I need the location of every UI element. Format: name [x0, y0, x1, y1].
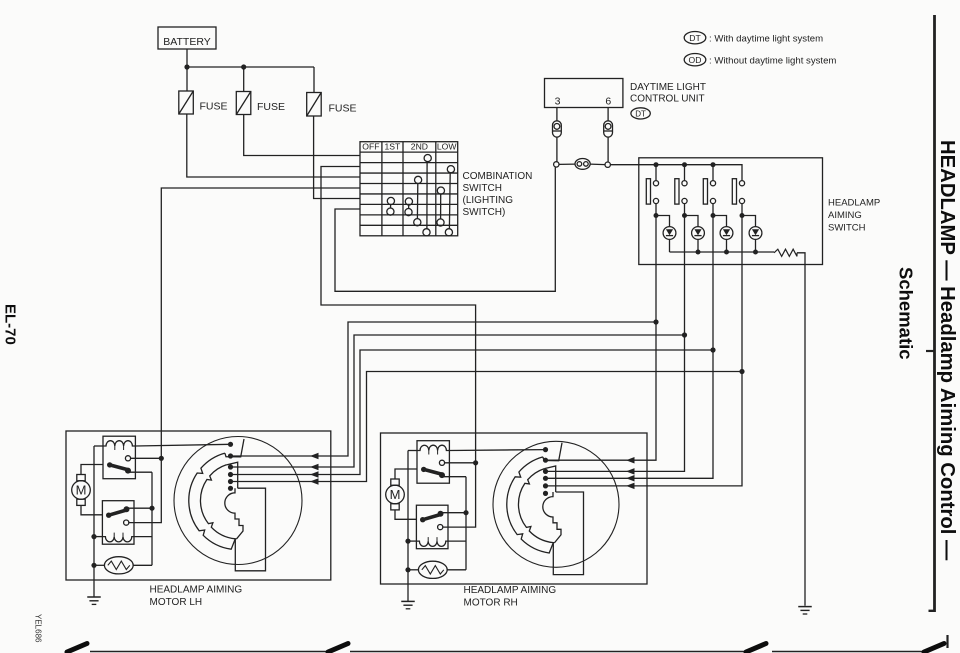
relay K2 armature (LH)	[106, 513, 111, 518]
aiming switch resistor bar 4	[732, 179, 736, 204]
node top bus 1	[654, 162, 659, 167]
wire motor bottom to relay2 (LH)	[81, 505, 102, 514]
thermistor TH (RH)	[418, 561, 447, 578]
wire resistor to ground run	[797, 253, 805, 606]
wire K1 coil left (LH)	[94, 445, 103, 447]
node K2 coil left (RH)	[405, 539, 410, 544]
switch contact C	[415, 176, 422, 183]
svg-text:: With daytime light system: : With daytime light system	[709, 33, 823, 44]
svg-text:MOTOR RH: MOTOR RH	[464, 598, 518, 609]
wire fuse3 to lighting switch	[314, 116, 360, 199]
wire bus drop 2	[684, 165, 686, 181]
svg-text:EL-70: EL-70	[2, 304, 19, 345]
node K1 feed (LH)	[159, 456, 164, 461]
wire K1 circle to feed (LH)	[131, 457, 162, 459]
node bus tap 2	[682, 332, 687, 337]
sensor contact dot 6 (RH)	[543, 491, 548, 496]
wire to K2 coil left (LH)	[94, 536, 102, 538]
svg-text:M: M	[76, 483, 87, 498]
aiming switch contact top 4	[739, 181, 744, 186]
svg-text:OFF: OFF	[362, 141, 379, 151]
wire motor bottom to relay2 (RH)	[395, 510, 416, 519]
relay K1 box (RH)	[417, 441, 449, 484]
sensor contact dot 1 (RH)	[543, 447, 548, 452]
diode D1	[663, 227, 676, 240]
wire to thermistor (RH)	[408, 569, 418, 571]
wire motor top to relay1 (LH)	[81, 465, 103, 475]
connector bulb under pin 6	[604, 121, 613, 137]
svg-text:1ST: 1ST	[385, 141, 402, 151]
contact link F-H	[408, 205, 410, 208]
relay K1 armature (LH)	[107, 462, 112, 467]
symbol DT tag	[631, 108, 650, 119]
wire fuse1 to lighting switch	[187, 114, 360, 177]
wire diode to bottom bus 2	[697, 239, 699, 252]
motor M (RH)	[386, 485, 405, 504]
wire pin3 down	[556, 108, 558, 121]
sensor plate shelf (LH)	[226, 462, 237, 488]
node K2 coil left (LH)	[91, 534, 96, 539]
wire contact to node 4	[741, 204, 743, 216]
svg-text:YEL686: YEL686	[34, 614, 43, 643]
sensor contact dot 3 (LH)	[228, 464, 233, 469]
wire bus drop 1	[655, 165, 657, 181]
wire K2 armature out (RH)	[441, 512, 467, 514]
wire coil common down (LH)	[93, 446, 95, 565]
switch contact H	[405, 209, 412, 216]
wire bus to LH disc 4	[231, 372, 743, 482]
node bus junction 1	[184, 64, 189, 69]
svg-text:BATTERY: BATTERY	[163, 36, 210, 48]
switch contact J	[437, 219, 444, 226]
svg-text:HEADLAMP — Headlamp Aiming Con: HEADLAMP — Headlamp Aiming Control —	[936, 140, 958, 561]
RH motor box	[381, 433, 648, 584]
switch contact K	[423, 229, 430, 236]
connector bulb under pin 3	[553, 121, 562, 137]
sensor plate tail (RH)	[553, 492, 583, 575]
fuse F2	[236, 92, 251, 115]
inline connector OO	[575, 159, 590, 170]
contact link C-I	[416, 184, 418, 219]
sensor contact dot 4 (RH)	[543, 476, 548, 481]
sensor plate bump (LH)	[225, 488, 243, 539]
wire node3 to inline connector	[559, 163, 575, 165]
svg-text:OD: OD	[689, 55, 702, 65]
aiming switch bottom bus	[670, 251, 775, 253]
wire K1 coil to sensor top dot (RH)	[449, 449, 545, 452]
wire lighting switch to LH motor relay	[161, 188, 360, 458]
sensor plate spoke (RH)	[543, 443, 562, 461]
sensor plate ring (RH)	[507, 457, 554, 553]
wire to thermistor (LH)	[94, 564, 104, 566]
node bus tap 4	[739, 369, 744, 374]
sensor contact dot 1 (LH)	[228, 442, 233, 447]
wire coil common down (RH)	[407, 451, 409, 570]
wire pin6 down	[607, 108, 609, 121]
svg-text:AIMING: AIMING	[828, 210, 862, 221]
ground symbol (LH)	[87, 596, 101, 598]
svg-text:DT: DT	[635, 109, 646, 118]
wire aiming column 4 down to RH disc	[546, 216, 743, 486]
arrowhead LH sensor 2	[310, 464, 319, 471]
wire lighting switch to RH motor relay	[321, 167, 476, 464]
ground G3 (aiming switch)	[798, 606, 812, 608]
svg-text:FUSE: FUSE	[329, 103, 357, 115]
wire diode to bottom bus 3	[726, 239, 728, 252]
wire feed down to K2 circle (RH)	[443, 463, 476, 527]
switch contact A	[424, 155, 431, 162]
legend DT symbol	[684, 32, 706, 44]
node top bus 3	[711, 162, 716, 167]
node bottom bus	[753, 250, 758, 255]
contact link A-K	[426, 162, 428, 229]
sensor contact dot 5 (LH)	[228, 479, 233, 484]
wire bus to fuse1	[186, 67, 188, 91]
ground symbol (RH)	[401, 600, 415, 602]
switch contact E	[387, 197, 394, 204]
diode D3	[720, 227, 733, 240]
wire to ground (LH)	[93, 565, 95, 597]
svg-text:FUSE: FUSE	[200, 101, 228, 113]
wire K1 coil left (RH)	[408, 450, 417, 452]
node bus junction 2	[241, 64, 246, 69]
arrowhead RH sensor 1	[626, 457, 635, 464]
relay K1 armature (RH)	[421, 467, 426, 472]
aiming switch contact top 1	[653, 181, 658, 186]
sensor contact dot 4 (LH)	[228, 472, 233, 477]
switch contact G	[387, 208, 394, 215]
svg-text:HEADLAMP AIMING: HEADLAMP AIMING	[464, 585, 557, 596]
relay K2 contact circle (RH)	[438, 525, 443, 530]
svg-text:HEADLAMP AIMING: HEADLAMP AIMING	[150, 585, 243, 596]
node top bus 2	[682, 162, 687, 167]
sensor plate bump (RH)	[543, 492, 561, 543]
aiming switch contact bottom 4	[739, 198, 744, 203]
LH motor box	[66, 431, 331, 580]
sensor contact dot 2 (RH)	[543, 458, 548, 463]
wire diode to bottom bus 4	[755, 239, 757, 252]
svg-text:HEADLAMP: HEADLAMP	[828, 198, 880, 209]
motor M (LH)	[72, 481, 91, 500]
wire feed down to K2 circle (LH)	[129, 458, 162, 522]
arrowhead LH sensor 1	[310, 453, 319, 460]
svg-text:2ND: 2ND	[411, 141, 428, 151]
arrowhead RH sensor 3	[626, 475, 635, 482]
node connector 6 (open)	[605, 162, 610, 167]
wire thermistor right (LH)	[133, 564, 152, 566]
sensor contact dot 6 (LH)	[228, 486, 233, 491]
wire K2 armature out (LH)	[127, 507, 153, 509]
diode D4	[749, 227, 762, 240]
wire K1 armature out (LH)	[128, 471, 152, 473]
aiming switch resistor bar 3	[703, 179, 707, 204]
node aiming output 1	[654, 213, 659, 218]
svg-text:COMBINATION: COMBINATION	[463, 171, 533, 182]
node aiming output 2	[682, 213, 687, 218]
wire power bus	[187, 66, 314, 68]
arrowhead LH sensor 4	[310, 478, 319, 485]
aiming switch contact bottom 3	[710, 198, 715, 203]
contact link B-L	[448, 173, 451, 229]
fuse F3	[307, 93, 322, 117]
wire contact to node 2	[684, 204, 686, 216]
svg-text:DT: DT	[689, 33, 701, 43]
node armature join (RH)	[463, 510, 468, 515]
wire node6 to aiming switch	[610, 164, 639, 166]
aiming switch contact bottom 2	[682, 198, 687, 203]
wire bulb3 to node	[556, 137, 558, 162]
legend OD symbol	[684, 54, 706, 66]
wire K1 coil to sensor top dot (LH)	[135, 444, 230, 446]
svg-text:6: 6	[605, 96, 611, 108]
contact link E-G	[390, 205, 392, 208]
node bottom bus	[696, 250, 701, 255]
wire K1 armature out (RH)	[442, 476, 466, 478]
wire aiming column 1 down to RH disc	[546, 216, 657, 461]
aiming switch contact bottom 1	[653, 198, 658, 203]
node armature join (LH)	[149, 506, 154, 511]
sensor plate ring (LH)	[189, 453, 236, 549]
wire bulb6 to node	[607, 137, 609, 162]
relay K1 coil (LH)	[103, 441, 135, 446]
svg-text:DAYTIME LIGHT: DAYTIME LIGHT	[630, 82, 706, 93]
svg-text:3: 3	[555, 96, 561, 108]
wire node to diode 1	[656, 216, 670, 227]
node bus tap 3	[710, 347, 715, 352]
arrowhead LH sensor 3	[310, 471, 319, 478]
wire diode to bottom bus 1	[669, 239, 671, 252]
wire to K2 coil left (RH)	[408, 540, 416, 542]
svg-text:(LIGHTING: (LIGHTING	[463, 195, 514, 206]
wire bus to fuse3	[313, 67, 315, 93]
wire K2 coil right out (RH)	[448, 540, 466, 542]
aiming switch contact top 2	[682, 181, 687, 186]
aiming switch contact top 3	[710, 181, 715, 186]
switch contact B	[447, 166, 454, 173]
relay K2 box (LH)	[102, 501, 134, 545]
arrowhead RH sensor 2	[626, 468, 635, 475]
aiming switch top bus	[640, 165, 743, 181]
node K1 feed (RH)	[473, 460, 478, 465]
bottom page crop marks	[90, 651, 327, 653]
sensor disc circle (LH)	[174, 437, 302, 565]
node aiming output 4	[740, 213, 745, 218]
combination switch table grid	[360, 142, 458, 236]
switch contact I	[414, 219, 421, 226]
relay K1 coil (RH)	[417, 445, 449, 450]
switch contact D	[437, 187, 444, 194]
relay K2 coil (RH)	[416, 541, 448, 546]
node thermistor left (RH)	[405, 567, 410, 572]
switch contact L	[445, 229, 452, 236]
relay K2 coil (LH)	[102, 537, 134, 542]
wire motor top to relay1 (RH)	[395, 469, 417, 479]
wire node to diode 4	[742, 216, 756, 227]
relay K2 armature (RH)	[420, 517, 425, 522]
wire battery to bus	[186, 49, 188, 67]
svg-text:: Without daytime light system: : Without daytime light system	[709, 55, 836, 66]
battery box	[158, 27, 216, 49]
svg-text:M: M	[390, 487, 401, 502]
svg-text:Schematic: Schematic	[896, 267, 917, 360]
wire armature common down (LH)	[151, 472, 153, 565]
switch contact F	[405, 198, 412, 205]
sensor disc circle (RH)	[493, 441, 619, 567]
relay K2 box (RH)	[416, 505, 448, 549]
relay K1 contact circle (LH)	[125, 456, 130, 461]
arrowhead RH sensor 4	[626, 483, 635, 490]
contact link D-J	[440, 194, 442, 219]
node bus tap 1	[653, 319, 658, 324]
wire fuse2 to lighting switch	[244, 115, 360, 156]
svg-text:SWITCH: SWITCH	[463, 183, 502, 194]
wire bus to LH disc 3	[231, 350, 714, 475]
fuse F1	[179, 91, 194, 114]
svg-text:LOW: LOW	[437, 141, 457, 151]
wire bus to LH disc 1	[231, 322, 657, 456]
svg-text:SWITCH): SWITCH)	[463, 207, 506, 218]
wire thermistor right (RH)	[447, 569, 466, 571]
node connector 3 (open)	[554, 162, 559, 167]
wire armature common down (RH)	[465, 477, 467, 570]
aiming switch resistor bar 2	[675, 179, 679, 204]
wire connector to node6	[590, 163, 605, 166]
wire bus to LH disc 2	[231, 335, 685, 467]
sensor plate tail (LH)	[235, 488, 265, 571]
svg-text:MOTOR LH: MOTOR LH	[150, 597, 203, 608]
wire contact to node 1	[655, 204, 657, 216]
svg-text:SWITCH: SWITCH	[828, 223, 866, 234]
wire node to diode 2	[685, 216, 699, 227]
sensor contact dot 2 (LH)	[228, 453, 233, 458]
resistor R1 (aiming feedback)	[774, 249, 797, 256]
wire node to diode 3	[713, 216, 727, 227]
wire contact to node 3	[712, 204, 714, 216]
wire aiming column 3 down to RH disc	[546, 216, 714, 479]
sensor contact dot 5 (RH)	[543, 483, 548, 488]
svg-text:FUSE: FUSE	[257, 101, 285, 113]
aiming switch resistor bar 1	[646, 179, 650, 204]
relay K2 contact circle (LH)	[124, 520, 129, 525]
node bottom bus	[724, 250, 729, 255]
wire lighting switch to daytime node	[335, 167, 555, 291]
wire bus to fuse2	[243, 67, 245, 92]
diode D2	[692, 227, 705, 240]
thermistor TH (LH)	[104, 557, 133, 574]
node thermistor left (LH)	[91, 563, 96, 568]
wire bus drop 3	[712, 165, 714, 181]
wire to ground (RH)	[407, 570, 409, 602]
sensor contact dot 3 (RH)	[543, 469, 548, 474]
svg-text:CONTROL UNIT: CONTROL UNIT	[630, 94, 705, 105]
page rule right	[933, 15, 936, 612]
node aiming output 3	[711, 213, 716, 218]
sensor plate spoke (LH)	[225, 439, 244, 457]
wire K1 circle to feed (RH)	[445, 462, 476, 464]
headlamp aiming switch box	[639, 158, 823, 265]
relay K1 box (LH)	[103, 436, 135, 479]
wire aiming column 2 down to RH disc	[546, 216, 685, 472]
relay K1 contact circle (RH)	[439, 460, 444, 465]
daytime light control unit box	[545, 79, 623, 108]
sensor plate shelf (RH)	[544, 466, 555, 492]
wire K2 coil right out (LH)	[134, 536, 152, 538]
